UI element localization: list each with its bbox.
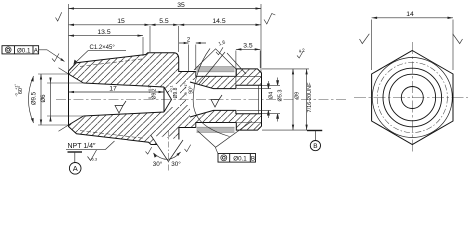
svg-text:2: 2	[187, 38, 191, 44]
svg-text:-0: -0	[184, 92, 188, 95]
thread root lines stud	[222, 76, 262, 122]
svg-text:+0.1: +0.1	[170, 85, 174, 92]
60 deg flare angle	[59, 68, 69, 132]
dim 15	[69, 24, 151, 26]
hexagon	[372, 51, 453, 145]
svg-text:13.5: 13.5	[97, 29, 110, 36]
finish check right of 35 dim	[264, 14, 275, 25]
svg-text:Ø0.1: Ø0.1	[233, 155, 247, 162]
svg-text:35: 35	[177, 2, 185, 9]
section hatching: part silhouette	[69, 53, 262, 145]
svg-text:+1°: +1°	[15, 84, 19, 90]
dim 17	[69, 91, 165, 93]
svg-text:Ø9.8: Ø9.8	[173, 87, 179, 98]
centerline	[56, 99, 348, 101]
svg-text:NPT 1/4″: NPT 1/4″	[68, 143, 97, 150]
neck shoulder edges	[196, 72, 237, 128]
dia5.3	[277, 78, 279, 122]
NPT thread root dashed lines on taper	[80, 59, 143, 138]
finish check left of 35 dim	[56, 12, 62, 21]
text halo middle labels	[150, 85, 160, 109]
90deg cone construction lines above neck	[194, 49, 237, 70]
dim 5.5	[150, 24, 179, 26]
internal: 60 deg flare	[69, 74, 84, 125]
svg-text:14.5: 14.5	[212, 18, 225, 25]
dia9	[292, 69, 294, 130]
svg-text:Ø9.2: Ø9.2	[152, 88, 158, 99]
svg-text:5.5: 5.5	[159, 18, 169, 25]
svg-text:6.3: 6.3	[92, 157, 98, 162]
svg-text:Ø4: Ø4	[269, 92, 275, 99]
finish check right of NPT	[88, 150, 97, 161]
dia4	[267, 81, 269, 118]
dim 35	[69, 8, 262, 10]
svg-text:Ø6: Ø6	[41, 94, 47, 103]
svg-text:Ø9: Ø9	[295, 92, 301, 99]
finish checks beside hex	[360, 34, 370, 44]
internal: right cavity cone + bores	[190, 82, 262, 117]
svg-text:1.6: 1.6	[218, 39, 227, 47]
finish triangle symbol in right cavity	[211, 95, 222, 107]
circles	[372, 58, 452, 138]
svg-text:30°: 30°	[171, 160, 181, 168]
dia 9.5	[40, 74, 42, 125]
svg-text:A: A	[73, 164, 78, 173]
dim 14.5	[179, 24, 261, 26]
svg-text:0: 0	[148, 97, 152, 99]
big projection arc	[193, 49, 229, 137]
part outline left+hex section	[69, 53, 196, 145]
7/16-20UNF	[306, 69, 308, 130]
dim 2 groove	[179, 42, 206, 44]
dim 14	[372, 20, 453, 71]
svg-text:17: 17	[109, 85, 117, 92]
svg-text:60°: 60°	[18, 86, 24, 94]
right cavity white: 90deg cone + dia4 + dia5.3	[190, 82, 262, 117]
svg-text:3.5: 3.5	[243, 43, 253, 50]
stud outline right	[236, 69, 261, 130]
svg-text:Ø9.5: Ø9.5	[32, 91, 38, 105]
svg-text:C1.2×45°: C1.2×45°	[90, 45, 116, 51]
svg-text:B: B	[313, 143, 317, 150]
dia 6	[50, 83, 52, 116]
svg-text:15: 15	[117, 18, 125, 25]
internal: dia6 bore	[84, 83, 165, 116]
svg-text:30°: 30°	[153, 160, 163, 168]
svg-text:14: 14	[406, 11, 414, 18]
small finish check near chamfer	[52, 54, 59, 62]
svg-text:Ø5.3: Ø5.3	[278, 90, 284, 102]
svg-text:90°: 90°	[189, 86, 195, 94]
drill cone at bore end	[164, 87, 172, 112]
gray thread bands on neck	[197, 67, 235, 72]
svg-text:7/16-20UNF: 7/16-20UNF	[307, 82, 313, 113]
left bore cavity white: flare + dia6 bore + drill cone	[69, 74, 172, 125]
svg-text:+0.1: +0.1	[148, 86, 152, 93]
lower cone construction lines	[197, 121, 252, 147]
dim 13.5	[69, 35, 144, 37]
finish triangle symbol in left bore	[115, 101, 126, 113]
svg-text:B: B	[251, 155, 255, 162]
counterbore mouth inner edge	[258, 85, 260, 113]
svg-text:Ø0.1: Ø0.1	[17, 47, 31, 54]
extension verticals	[69, 4, 262, 88]
svg-text:-0: -0	[15, 93, 19, 96]
svg-text:+1°: +1°	[184, 83, 188, 89]
datum B	[307, 130, 322, 132]
dim 3.5	[236, 48, 260, 50]
